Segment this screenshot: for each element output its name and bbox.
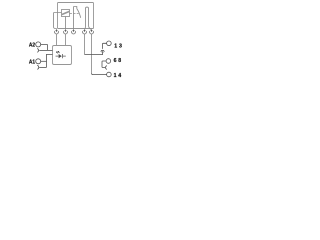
svg-text:A1: A1 [29,59,35,65]
svg-text:A2: A2 [29,43,35,49]
svg-text:14: 14 [114,73,123,79]
svg-text:13: 13 [114,43,123,49]
svg-text:68: 68 [114,58,123,64]
